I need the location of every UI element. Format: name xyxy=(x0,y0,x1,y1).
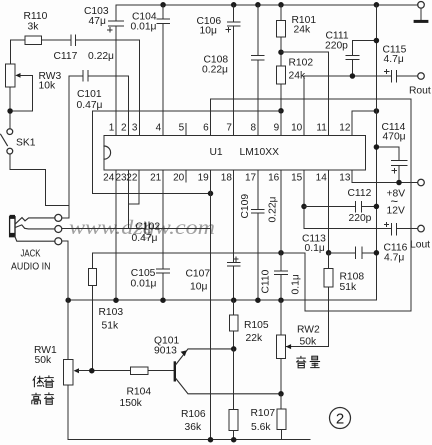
svg-text:0.22μ: 0.22μ xyxy=(268,196,279,222)
node dot C114/supply line xyxy=(396,180,402,186)
wire Lout line xyxy=(304,228,391,230)
svg-text:3k: 3k xyxy=(28,22,40,33)
node dots on line N xyxy=(65,297,71,303)
svg-text:5.6k: 5.6k xyxy=(251,422,271,433)
node dot pin12/main vertical xyxy=(374,108,380,114)
svg-text:4.7μ: 4.7μ xyxy=(384,253,404,264)
node dot C112/main vertical xyxy=(374,204,380,210)
jack sleeve contact xyxy=(15,236,55,241)
svg-text:C112: C112 xyxy=(348,188,372,199)
svg-text:0.1μ: 0.1μ xyxy=(291,274,302,294)
bottom ground rail xyxy=(68,439,310,441)
RW1 wiper arrow xyxy=(74,368,79,373)
capacitor C116 xyxy=(391,223,417,235)
svg-text:4.7μ: 4.7μ xyxy=(384,54,404,65)
svg-text:SK1: SK1 xyxy=(16,138,36,149)
node dot rail/pin19 xyxy=(208,437,214,443)
svg-text:R108: R108 xyxy=(340,272,365,283)
svg-text:50k: 50k xyxy=(300,337,317,348)
capacitor C104 xyxy=(157,5,169,136)
C115 plus sign xyxy=(385,69,389,73)
svg-text:C110: C110 xyxy=(260,269,271,293)
svg-text:R103: R103 xyxy=(99,307,124,318)
wire pin 19 long vertical xyxy=(210,170,212,440)
capacitor C112 xyxy=(304,202,376,213)
potentiometer RW1 xyxy=(67,300,69,359)
svg-text:12: 12 xyxy=(339,123,351,134)
capacitor C110 xyxy=(275,253,288,300)
svg-text:18: 18 xyxy=(221,173,233,184)
svg-text:12V: 12V xyxy=(387,206,405,217)
C114 plus sign xyxy=(392,168,396,172)
potentiometer RW3 xyxy=(5,64,15,87)
node dot rail/vertical bus xyxy=(374,2,380,8)
Q101 emitter xyxy=(176,349,234,365)
resistor R107 xyxy=(280,394,283,409)
svg-text:10: 10 xyxy=(291,123,303,134)
potentiometer RW2 xyxy=(280,300,282,335)
resistor R103 xyxy=(91,253,93,268)
node dot pin16/C110 top xyxy=(278,250,284,256)
svg-text:5: 5 xyxy=(179,123,185,134)
resistor R105 xyxy=(233,300,235,315)
svg-text:20: 20 xyxy=(173,173,185,184)
svg-text:0.01μ: 0.01μ xyxy=(131,279,157,290)
svg-text:C107: C107 xyxy=(186,269,211,280)
jack contact circle sleeve xyxy=(55,238,62,245)
svg-text:2: 2 xyxy=(121,123,127,134)
svg-text:17: 17 xyxy=(245,173,257,184)
node dot pin14/C113 line xyxy=(326,250,332,256)
svg-text:9013: 9013 xyxy=(154,346,177,357)
svg-text:51k: 51k xyxy=(340,282,357,293)
node dot emitter/R105 xyxy=(231,346,237,352)
svg-text:13: 13 xyxy=(339,173,351,184)
svg-text:470μ: 470μ xyxy=(383,132,406,143)
main lower line N xyxy=(68,299,376,301)
svg-text:24k: 24k xyxy=(289,71,306,82)
node dot pin19 / left loop wire xyxy=(208,191,214,197)
svg-text:10k: 10k xyxy=(39,81,56,92)
svg-text:0.22μ: 0.22μ xyxy=(88,51,114,62)
svg-text:220p: 220p xyxy=(349,213,372,224)
hanzi liang (volume) xyxy=(310,356,320,367)
wire pin 12 link to main vertical xyxy=(352,111,376,135)
svg-text:C117: C117 xyxy=(54,51,78,62)
svg-text:0.22μ: 0.22μ xyxy=(202,65,228,76)
jack contact circle tip xyxy=(55,214,62,221)
circled figure number 2 xyxy=(330,408,351,429)
transistor Q101 base bar xyxy=(174,361,176,381)
capacitor C105 on pin 21 wire xyxy=(157,170,170,300)
resistor R108 xyxy=(328,253,330,269)
capacitor C117 xyxy=(41,35,139,135)
hanzi yin (sound) of volume label xyxy=(296,356,306,368)
capacitor C102 on jack ring line xyxy=(62,222,211,234)
svg-text:R104: R104 xyxy=(127,387,152,398)
svg-text:4: 4 xyxy=(156,123,162,134)
wire pin 10 to Rout line xyxy=(304,76,391,135)
svg-text:51k: 51k xyxy=(102,321,119,332)
pin 5 stub xyxy=(185,124,187,136)
SK1 lever xyxy=(1,134,8,145)
RW3 bottom wire xyxy=(9,87,11,129)
node dot C111 top branch xyxy=(374,38,380,44)
svg-text:0.47μ: 0.47μ xyxy=(77,100,103,111)
capacitor C109 on pin 17 wire xyxy=(252,170,265,300)
capacitor C114 branch xyxy=(376,147,406,183)
svg-text:6: 6 xyxy=(203,123,209,134)
svg-text:47μ: 47μ xyxy=(89,16,106,27)
C103 plus sign xyxy=(108,28,112,32)
pin numbers top row xyxy=(109,123,351,134)
svg-text:9: 9 xyxy=(274,123,280,134)
svg-text:JACK: JACK xyxy=(21,249,41,260)
node dot C114 branch xyxy=(374,144,380,150)
svg-text:10μ: 10μ xyxy=(190,282,207,293)
svg-text:C101: C101 xyxy=(77,89,102,100)
hanzi di (bass) xyxy=(33,376,44,387)
C116 plus sign xyxy=(384,223,388,227)
hanzi yin (sound) of treble label xyxy=(44,392,54,404)
svg-text:2: 2 xyxy=(336,411,344,428)
wire main right vertical x376 xyxy=(375,5,377,300)
pin 20 stub xyxy=(185,170,187,182)
svg-text:16: 16 xyxy=(268,173,280,184)
op-amp IC U1 body xyxy=(104,135,365,170)
capacitor C103 xyxy=(109,5,124,136)
capacitor C113 xyxy=(329,247,377,259)
audio jack plug body xyxy=(10,217,15,237)
capacitor C107 on pin 18 wire xyxy=(227,170,240,300)
svg-text:C109: C109 xyxy=(240,194,251,219)
node dot rail/R101 xyxy=(278,2,284,8)
wire pin 16 down xyxy=(280,170,282,253)
resistor R104 xyxy=(130,367,148,374)
wire R101/R102 junction to pin 11 xyxy=(281,52,329,135)
wire pin 14 down to C113 node xyxy=(328,170,330,253)
capacitor C115 xyxy=(391,70,417,82)
svg-text:24: 24 xyxy=(103,173,115,184)
svg-text:11: 11 xyxy=(316,123,327,134)
wire feedback line y110 to left side xyxy=(92,111,281,194)
wire pin 22 pin 23 tie xyxy=(128,170,139,228)
terminal circle top right xyxy=(418,2,425,9)
jack tip contact lever xyxy=(15,218,54,224)
svg-text:Lout: Lout xyxy=(410,240,430,251)
svg-text:R105: R105 xyxy=(244,320,269,331)
svg-text:7: 7 xyxy=(226,123,232,134)
terminal Lout xyxy=(418,225,425,232)
svg-text:0.47μ: 0.47μ xyxy=(132,233,158,244)
svg-text:19: 19 xyxy=(198,173,210,184)
switch SK1 xyxy=(7,129,13,135)
node dot rail/C104 xyxy=(160,2,166,8)
svg-text:C105: C105 xyxy=(131,268,156,279)
resistor R102 xyxy=(280,52,282,66)
terminal Rout xyxy=(418,73,425,80)
C107 plus sign xyxy=(234,257,238,261)
Q101 collector xyxy=(176,379,281,394)
wire C101 left vertical xyxy=(68,76,70,218)
RW3 wiper arrow xyxy=(15,73,20,78)
svg-text:0.01μ: 0.01μ xyxy=(131,22,157,33)
capacitor C101 xyxy=(69,71,128,136)
wire pin 13 to supply terminal xyxy=(352,170,418,182)
svg-text:36k: 36k xyxy=(185,422,202,433)
capacitor C108 xyxy=(252,5,265,136)
node dot rail/R106 xyxy=(231,437,237,443)
terminal +8V supply xyxy=(418,179,425,186)
svg-text:22k: 22k xyxy=(246,333,263,344)
svg-text:3: 3 xyxy=(132,123,138,134)
ground xyxy=(420,8,422,20)
svg-text:15: 15 xyxy=(291,173,303,184)
svg-text:Rout: Rout xyxy=(409,86,431,97)
wire right vertical bus xyxy=(410,99,412,311)
svg-text:C102: C102 xyxy=(136,222,161,233)
svg-text:RW2: RW2 xyxy=(297,325,320,336)
svg-text:AUDIO IN: AUDIO IN xyxy=(11,262,51,273)
svg-text:LM10XX: LM10XX xyxy=(240,147,280,158)
svg-text:8: 8 xyxy=(251,123,257,134)
wire jack tip to vertical xyxy=(62,217,69,219)
wire pin 6 to top bus line y99 xyxy=(211,99,412,135)
svg-text:14: 14 xyxy=(316,173,328,184)
node dot RW2/R107/collector xyxy=(278,391,284,397)
svg-text:0.1μ: 0.1μ xyxy=(305,243,325,254)
wire top supply rail xyxy=(116,4,418,6)
node dot rail/C106 xyxy=(231,2,237,8)
wire SK1 to jack tip node xyxy=(10,154,69,205)
main mid line M (R103 to corner) xyxy=(92,252,305,254)
wire pin 24 down xyxy=(115,170,117,300)
wire pin 15 down with C112 tap and Lout corner xyxy=(303,170,305,228)
svg-text:150k: 150k xyxy=(120,398,143,409)
pin numbers bottom row xyxy=(103,173,351,184)
node dot rail/C108 xyxy=(255,2,261,8)
C106 plus sign xyxy=(226,27,230,31)
resistor R106 xyxy=(233,349,235,410)
node dot R101/R102 junction xyxy=(278,49,284,55)
U1 notch xyxy=(104,146,111,159)
svg-text:220p: 220p xyxy=(325,41,348,52)
node dot R103/RW1 wiper xyxy=(89,368,95,374)
wire jack sleeve down to line N xyxy=(62,241,68,300)
wire lower mid line to bus xyxy=(305,253,411,311)
svg-text:1: 1 xyxy=(109,123,115,134)
svg-text:R107: R107 xyxy=(251,408,276,419)
hanzi gao (treble) xyxy=(32,393,41,404)
resistor R110 xyxy=(25,36,41,44)
hanzi yin (sound) of bass label xyxy=(44,375,54,387)
svg-text:U1: U1 xyxy=(210,147,223,158)
jack contact circle ring xyxy=(55,226,62,233)
jack ring contact lever xyxy=(15,225,54,229)
node dot pin15/C112 line xyxy=(301,204,307,210)
svg-text:50k: 50k xyxy=(35,355,52,366)
node dot R102 bottom / feedback line xyxy=(278,108,284,114)
svg-text:R106: R106 xyxy=(181,409,206,420)
Q101 emitter arrow xyxy=(181,350,187,356)
svg-text:24k: 24k xyxy=(294,25,311,36)
node dot RW3 bottom/wiper xyxy=(7,108,13,114)
wire line N corner up to main vertical xyxy=(375,299,378,301)
node dot C113/main vertical xyxy=(374,250,380,256)
RW2 wiper arrow xyxy=(286,344,291,349)
resistor R101 xyxy=(280,5,282,21)
svg-text:21: 21 xyxy=(150,173,162,184)
svg-text:R102: R102 xyxy=(289,58,314,69)
svg-text:R110: R110 xyxy=(24,11,48,22)
node dot C111/Rout line xyxy=(350,73,356,79)
svg-text:10μ: 10μ xyxy=(200,26,217,37)
capacitor C111 xyxy=(346,41,376,77)
capacitor C106 xyxy=(227,5,240,136)
